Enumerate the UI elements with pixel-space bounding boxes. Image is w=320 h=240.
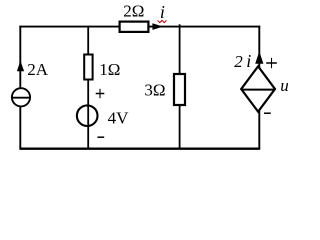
svg-text:2: 2 [234,52,243,71]
plus sign of 4V source [96,89,105,98]
voltage source 4V (circle) [77,105,98,126]
wire middle-right branch (3Ω) vertical with top overshoot [179,24,181,148]
wire top horizontal [19,26,260,28]
svg-text:2A: 2A [27,60,49,79]
plus sign of u [266,58,277,68]
svg-text:4V: 4V [108,109,130,128]
arrow of current source direction (up) [17,61,24,72]
svg-text:i: i [246,51,251,71]
svg-text:u: u [280,76,289,95]
svg-text:1Ω: 1Ω [99,60,120,79]
resistor 3Ω [174,74,185,105]
minus sign of u [264,112,271,114]
red spell-check squiggle under i [158,20,167,22]
svg-text:2Ω: 2Ω [123,1,144,20]
wire middle-left branch (1Ω/4V) vertical [87,26,89,149]
wire bottom horizontal [19,147,260,149]
arrow of dependent source direction (up) [255,51,263,64]
minus sign of 4V source [97,136,104,138]
svg-text:3Ω: 3Ω [144,81,165,100]
arrow of current i (right) [152,23,163,30]
wire left branch upper [19,26,21,89]
current source 2A (circle with bar) [12,88,30,106]
wire right branch vertical [258,26,260,149]
svg-text:i: i [160,2,165,22]
resistor 2Ω (in top wire) [120,22,149,32]
dependent current source 2i (diamond with bar) [241,66,275,111]
wire left branch lower [19,106,21,149]
resistor 1Ω [84,55,92,80]
